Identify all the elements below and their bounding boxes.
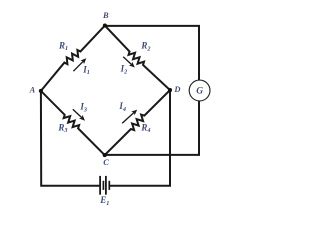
svg-text:G: G bbox=[196, 87, 203, 97]
wire A to battery left bbox=[41, 91, 99, 186]
battery E1 plates bbox=[100, 176, 109, 195]
current arrow I3 bbox=[73, 109, 83, 118]
wire B to galvanometer top bbox=[105, 26, 199, 80]
svg-text:A: A bbox=[29, 86, 36, 95]
galvanometer U1 circle bbox=[189, 80, 210, 101]
resistor R2 bbox=[105, 26, 170, 91]
node B dot bbox=[103, 24, 107, 28]
resistor R4 bbox=[105, 90, 170, 155]
arrowhead I2 bbox=[129, 62, 135, 68]
svg-text:B: B bbox=[102, 11, 109, 20]
resistor R1 bbox=[41, 26, 105, 91]
svg-text:I4: I4 bbox=[118, 101, 126, 113]
current arrow I4 bbox=[122, 112, 135, 124]
svg-text:E1: E1 bbox=[99, 195, 109, 207]
arrowhead I3 bbox=[79, 115, 85, 121]
resistor R3 bbox=[41, 91, 105, 155]
node C dot bbox=[103, 153, 107, 157]
svg-text:I2: I2 bbox=[120, 64, 128, 76]
current arrow I1 bbox=[73, 60, 84, 71]
svg-text:R2: R2 bbox=[140, 41, 150, 53]
svg-text:I1: I1 bbox=[82, 64, 90, 76]
node A dot bbox=[39, 89, 43, 93]
current arrow I2 bbox=[123, 57, 132, 66]
svg-text:C: C bbox=[103, 158, 109, 167]
wire battery right to D bbox=[110, 90, 170, 186]
arrowhead I4 bbox=[131, 110, 137, 116]
svg-text:R1: R1 bbox=[58, 40, 68, 52]
wire galvanometer bottom to C bbox=[105, 101, 199, 155]
node D dot bbox=[168, 88, 172, 92]
svg-text:R3: R3 bbox=[57, 122, 67, 134]
svg-text:D: D bbox=[173, 85, 180, 94]
svg-text:R4: R4 bbox=[140, 122, 150, 134]
svg-text:I3: I3 bbox=[79, 102, 87, 114]
arrowhead I1 bbox=[80, 58, 86, 64]
